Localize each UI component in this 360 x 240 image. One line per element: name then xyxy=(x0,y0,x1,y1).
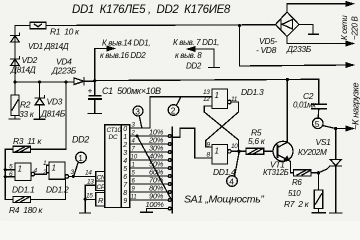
svg-text:Д814Д: Д814Д xyxy=(10,65,36,75)
switch SA1 contacts xyxy=(168,135,171,210)
wire left column xyxy=(14,26,16,83)
svg-text:~220 В: ~220 В xyxy=(351,16,360,40)
svg-text:КТ312Б: КТ312Б xyxy=(263,168,289,177)
title text xyxy=(72,4,231,16)
gate DD1.4 xyxy=(207,142,239,178)
svg-text:R6: R6 xyxy=(292,178,302,187)
node VD4 cathode / C1 xyxy=(93,79,96,82)
svg-text:DD1 К176ЛЕ5 , DD2 К176ИЕ8: DD1 К176ЛЕ5 , DD2 К176ИЕ8 xyxy=(72,4,231,16)
svg-text:4: 4 xyxy=(229,177,234,187)
svg-text:2: 2 xyxy=(42,169,47,176)
wire node5 to load (lower) xyxy=(334,127,337,130)
svg-text:5: 5 xyxy=(315,119,320,129)
gate DD1.2 xyxy=(42,160,75,195)
node circle 1 xyxy=(74,152,86,176)
wire bridge top to mains xyxy=(286,4,288,12)
switch SA1 movable bar xyxy=(171,127,173,213)
node circle 5 xyxy=(313,118,336,129)
svg-text:5,6 к: 5,6 к xyxy=(248,136,266,146)
svg-text:R1 10 к: R1 10 к xyxy=(50,27,80,37)
counter DD2 xyxy=(72,125,130,208)
svg-text:1: 1 xyxy=(215,147,219,156)
wire DD2 out0 to DD1.3 xyxy=(130,127,150,129)
ground (bridge right corner) xyxy=(299,24,313,26)
svg-text:9: 9 xyxy=(123,198,127,205)
svg-text:12: 12 xyxy=(203,96,210,103)
svg-text:DD1.3: DD1.3 xyxy=(241,87,264,97)
svg-text:~К нагрузке: ~К нагрузке xyxy=(351,82,360,130)
wire DD1.1 out to DD1.2 in xyxy=(35,173,47,175)
svg-text:VS1: VS1 xyxy=(316,137,332,147)
gate DD1.1 xyxy=(5,163,37,195)
mains label xyxy=(340,15,360,40)
svg-text:- VD8: - VD8 xyxy=(256,45,277,55)
resistor R5 xyxy=(246,128,273,155)
ground (VD3) xyxy=(34,118,45,120)
switch common wire to DD1.4 pin 8 xyxy=(172,128,212,158)
svg-text:4: 4 xyxy=(123,158,127,165)
svg-text:DD2: DD2 xyxy=(186,62,202,71)
svg-text:VD2: VD2 xyxy=(22,55,38,65)
zener VD1 xyxy=(11,33,69,51)
svg-text:К сети: К сети xyxy=(340,15,349,40)
wire node y82 xyxy=(15,81,74,83)
wire DD1.4 out to R5 xyxy=(231,150,246,152)
svg-text:6: 6 xyxy=(123,174,127,181)
svg-text:DD1.1: DD1.1 xyxy=(12,185,35,195)
wire DD2 CP,R to ground xyxy=(80,185,96,213)
svg-text:1: 1 xyxy=(123,134,127,141)
svg-text:VD3: VD3 xyxy=(47,97,63,107)
svg-text:R7 2 к: R7 2 к xyxy=(284,199,310,209)
zener VD2 xyxy=(10,55,38,75)
wire to pins 7/8 ground label xyxy=(173,38,220,71)
bridge rectifier VD5-VD8 xyxy=(256,12,312,55)
svg-text:DC: DC xyxy=(109,134,118,141)
svg-text:13: 13 xyxy=(87,179,94,186)
svg-text:CN: CN xyxy=(97,175,106,182)
percent labels xyxy=(146,128,165,210)
ground (R7) xyxy=(312,212,326,214)
node circle 4 xyxy=(227,153,239,187)
svg-text:15: 15 xyxy=(86,193,93,200)
svg-text:0: 0 xyxy=(123,126,127,133)
svg-text:13: 13 xyxy=(203,89,210,96)
ground (C1) xyxy=(88,113,102,115)
transistor VT1 xyxy=(263,79,294,177)
svg-text:к выв.16 DD2: к выв.16 DD2 xyxy=(100,51,146,60)
resistor R2 xyxy=(11,82,35,119)
wire DD1.2 out to DD2 CN xyxy=(69,175,96,177)
svg-text:DD2: DD2 xyxy=(72,135,89,145)
svg-text:+: + xyxy=(88,86,93,96)
diode VD4 xyxy=(51,57,95,85)
svg-text:1: 1 xyxy=(52,164,56,173)
resistor R6 xyxy=(288,170,319,198)
svg-text:Д223Б: Д223Б xyxy=(51,66,77,76)
wire to load (upper) xyxy=(239,26,241,67)
resistor R1 xyxy=(30,22,80,36)
svg-text:R2: R2 xyxy=(20,100,31,110)
svg-text:VD1 Д814Д: VD1 Д814Д xyxy=(28,42,69,51)
capacitor C1 xyxy=(88,81,162,113)
svg-text:0,01мк: 0,01мк xyxy=(293,101,317,110)
ground (R2) xyxy=(9,118,20,120)
svg-text:Д814Б: Д814Б xyxy=(40,109,66,119)
svg-text:КУ202М: КУ202М xyxy=(298,148,327,157)
thyristor VS1 xyxy=(298,129,342,213)
node circle 2 xyxy=(168,97,181,116)
wire top rail left xyxy=(15,25,30,27)
svg-text:R3 11 к: R3 11 к xyxy=(13,136,42,146)
resistor R4 xyxy=(5,178,65,215)
resistor R7 xyxy=(284,173,323,212)
DD2 output pin numbers xyxy=(131,123,138,201)
wire gate VS1 xyxy=(319,166,330,173)
wire left input column xyxy=(4,149,6,199)
ground (VS1 cathode) xyxy=(330,212,343,214)
switch SA1 label xyxy=(184,194,264,206)
load label xyxy=(351,82,360,130)
svg-text:10: 10 xyxy=(231,143,238,150)
gate DD1.3 xyxy=(203,87,264,109)
svg-text:CP: CP xyxy=(97,184,106,191)
svg-text:510: 510 xyxy=(288,189,301,198)
svg-text:2: 2 xyxy=(122,142,127,149)
svg-text:К выв.14 DD1,: К выв.14 DD1, xyxy=(102,39,150,48)
DD2 output digits xyxy=(122,126,128,205)
svg-text:33 к: 33 к xyxy=(19,109,35,119)
svg-text:1: 1 xyxy=(215,91,219,100)
svg-text:C1 500мк×10В: C1 500мк×10В xyxy=(102,86,161,96)
svg-text:1: 1 xyxy=(18,165,22,174)
svg-text:C2: C2 xyxy=(303,91,314,101)
svg-text:100%: 100% xyxy=(146,200,165,209)
wire bridge bottom to mains xyxy=(286,37,288,44)
svg-text:3: 3 xyxy=(123,150,127,157)
svg-text:СТ10: СТ10 xyxy=(107,127,122,134)
capacitor C2 xyxy=(293,79,327,118)
svg-text:к выв. 8: к выв. 8 xyxy=(175,51,202,60)
switch SA1 wiper arm xyxy=(137,136,172,200)
svg-text:5: 5 xyxy=(123,166,127,173)
svg-text:14: 14 xyxy=(85,170,92,177)
svg-text:К выв. 7 DD1,: К выв. 7 DD1, xyxy=(173,38,219,47)
supply rail +9V xyxy=(95,79,319,80)
zener VD3 xyxy=(35,82,66,119)
wire R3 riser to VD4 node xyxy=(65,82,67,149)
resistor R3 xyxy=(5,136,66,152)
svg-text:R4 180 к: R4 180 к xyxy=(9,205,43,215)
svg-text:3: 3 xyxy=(135,107,140,117)
svg-text:2: 2 xyxy=(171,106,176,116)
svg-text:8: 8 xyxy=(123,190,127,197)
RS cross-coupling xyxy=(204,102,238,151)
switch SA1 rows xyxy=(130,136,169,212)
wire to pins 14/16 label (arrow) xyxy=(95,39,151,81)
svg-text:Д233Б: Д233Б xyxy=(286,44,312,54)
node circle 3 xyxy=(133,106,143,128)
svg-text:SA1 „Мощность”: SA1 „Мощность” xyxy=(184,194,264,206)
